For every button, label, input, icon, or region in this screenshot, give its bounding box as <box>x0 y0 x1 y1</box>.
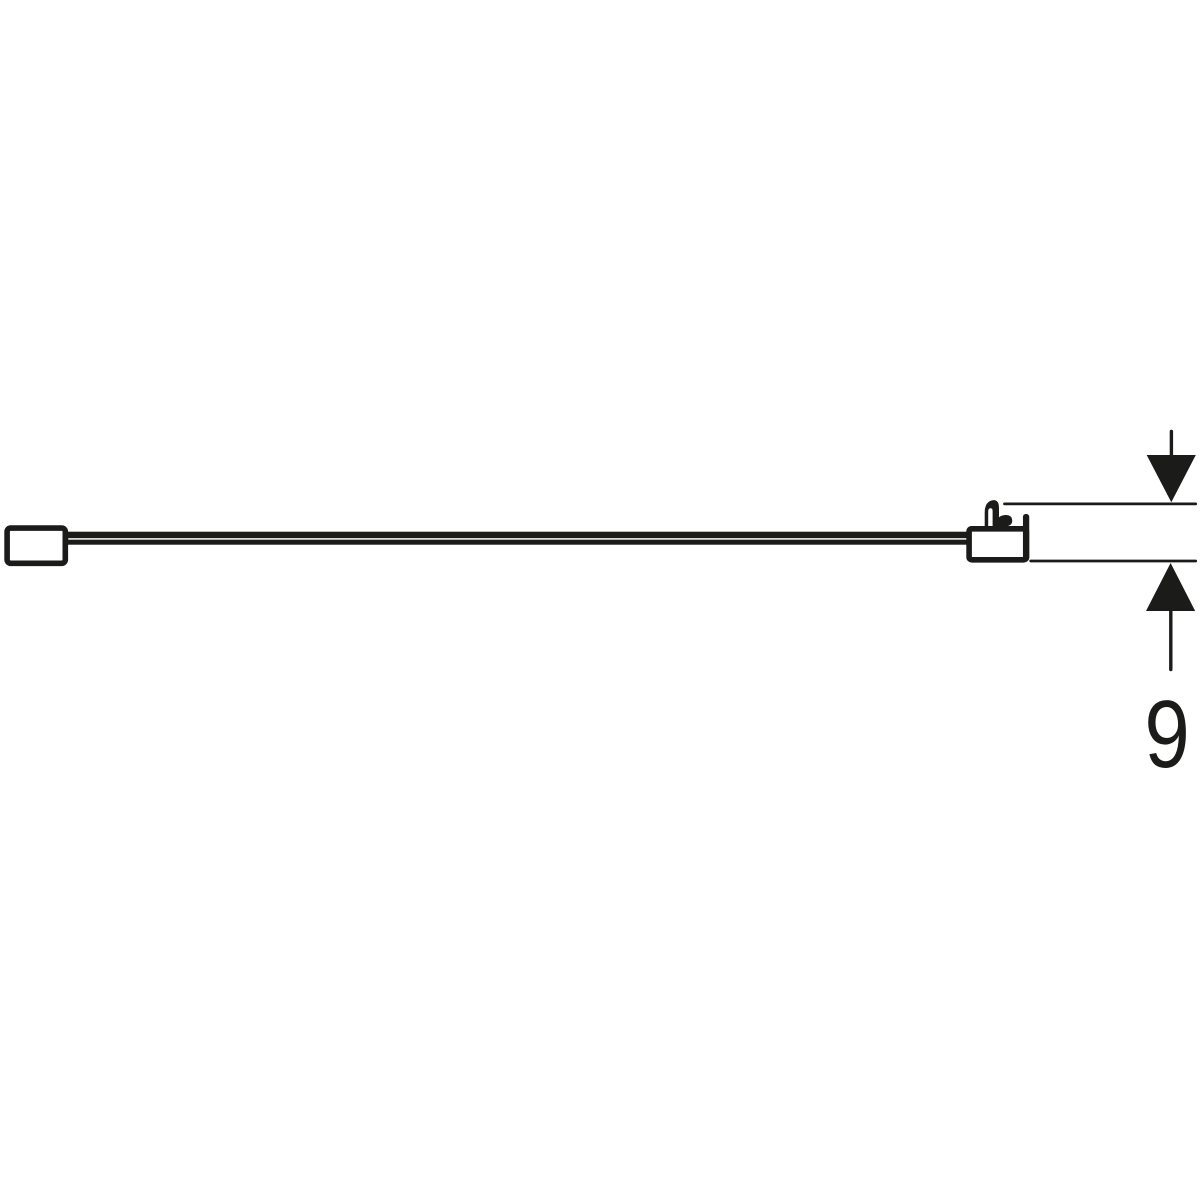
profile hook (hairpin loop, filled) <box>985 500 999 531</box>
top arrowhead (down-pointing) <box>1147 455 1196 502</box>
end cap (left rounded rectangle) <box>7 528 65 563</box>
glass panel (long horizontal bar) <box>64 532 967 545</box>
gasket bead (filled blob) <box>997 515 1012 526</box>
hook-bead junction filler <box>996 521 1004 529</box>
profile body (U-channel outline) <box>969 529 1026 560</box>
bottom dimension line <box>1031 560 1196 563</box>
bottom arrow stem <box>1169 606 1172 670</box>
top arrow stem <box>1170 432 1173 461</box>
bottom arrowhead (up-pointing) <box>1146 563 1195 611</box>
profile right stub (vertical wall extending up) <box>1023 517 1029 558</box>
glass panel center slit <box>68 538 967 540</box>
top dimension line <box>1005 503 1196 506</box>
svg-text:9: 9 <box>1144 680 1189 788</box>
